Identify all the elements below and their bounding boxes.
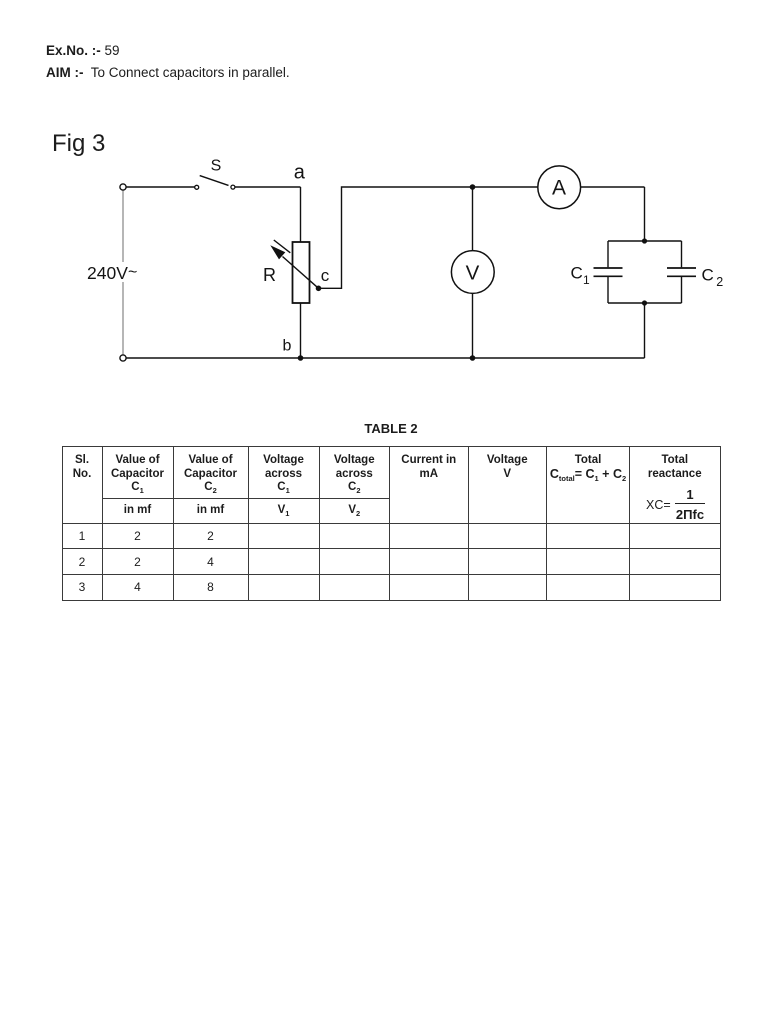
svg-text:V: V [466, 261, 480, 284]
svg-text:b: b [283, 338, 292, 355]
svg-text:R: R [263, 265, 276, 285]
svg-text:240V: 240V [87, 263, 128, 283]
svg-text:~: ~ [128, 264, 137, 281]
svg-text:A: A [552, 177, 566, 200]
svg-text:S: S [211, 158, 222, 175]
svg-text:a: a [294, 162, 306, 184]
svg-text:1: 1 [583, 273, 590, 287]
svg-text:C: C [571, 263, 583, 282]
svg-text:C: C [702, 266, 714, 285]
svg-text:c: c [321, 266, 330, 285]
svg-text:2: 2 [716, 275, 723, 289]
